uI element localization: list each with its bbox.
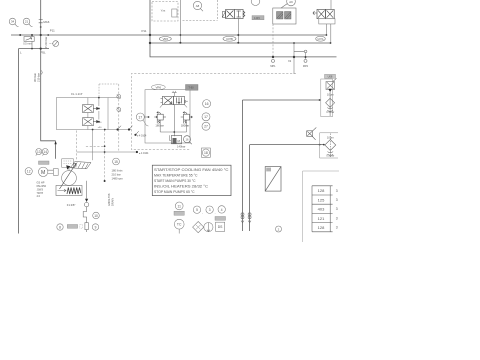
- svg-text:U08: U08: [328, 74, 333, 78]
- svg-text:180bar: 180bar: [181, 124, 189, 128]
- svg-text:▸ 4 0104: ▸ 4 0104: [139, 152, 149, 155]
- svg-text:210 bar: 210 bar: [37, 73, 41, 82]
- svg-text:34: 34: [11, 20, 15, 24]
- svg-text:140bar: 140bar: [177, 145, 185, 149]
- svg-text:4: 4: [221, 208, 223, 212]
- svg-text:12: 12: [27, 170, 31, 174]
- svg-text:TC: TC: [177, 223, 182, 227]
- svg-text:MA6: MA6: [43, 20, 49, 24]
- svg-text:121: 121: [318, 216, 325, 221]
- svg-text:10μm: 10μm: [327, 92, 335, 96]
- svg-text:DRAIN: DRAIN: [110, 198, 114, 206]
- svg-text:128: 128: [318, 188, 325, 193]
- svg-text:,: ,: [215, 210, 216, 214]
- svg-text:MAX TEMPERATURE 55 °C: MAX TEMPERATURE 55 °C: [154, 172, 198, 177]
- svg-text:128: 128: [318, 225, 325, 230]
- svg-text:27: 27: [204, 125, 208, 129]
- svg-text:P 210 bar: P 210 bar: [44, 37, 48, 48]
- svg-text:3: 3: [336, 207, 338, 211]
- svg-text:MP2: MP2: [303, 65, 309, 68]
- svg-text:18: 18: [204, 151, 208, 155]
- svg-text:17: 17: [138, 115, 142, 119]
- svg-text:10μm: 10μm: [327, 135, 335, 139]
- svg-text:3: 3: [336, 226, 338, 230]
- svg-text:180 l/min: 180 l/min: [112, 169, 123, 173]
- svg-text:8: 8: [59, 225, 61, 229]
- svg-text:A8: A8: [196, 4, 200, 8]
- svg-text:Yxx: Yxx: [161, 9, 166, 13]
- svg-text:X2: X2: [288, 59, 292, 63]
- svg-text:MP1: MP1: [270, 65, 276, 68]
- svg-text:VR6: VR6: [155, 85, 161, 89]
- svg-text:3: 3: [209, 208, 211, 212]
- svg-text:▸ 4 0104: ▸ 4 0104: [137, 135, 147, 138]
- svg-text:T-90: T-90: [188, 86, 194, 90]
- svg-text:F1.3/8": F1.3/8": [67, 203, 76, 207]
- svg-text:3: 3: [336, 198, 338, 202]
- svg-text:FL 1.1/4": FL 1.1/4": [71, 92, 83, 96]
- svg-text:3: 3: [336, 216, 338, 220]
- svg-text:403: 403: [318, 207, 325, 212]
- svg-text:125: 125: [318, 197, 325, 202]
- svg-text:13: 13: [37, 150, 41, 154]
- svg-text:M: M: [41, 170, 45, 176]
- svg-text:U07A: U07A: [318, 38, 324, 41]
- svg-text:0.5 bar: 0.5 bar: [326, 111, 334, 114]
- svg-text:5: 5: [196, 208, 198, 212]
- svg-text:1480 rpm: 1480 rpm: [112, 177, 124, 181]
- svg-text:DS: DS: [218, 225, 223, 229]
- svg-text:INS./OIL HEATERS 28/32 °C: INS./OIL HEATERS 28/32 °C: [154, 184, 208, 189]
- svg-text:U07B: U07B: [226, 37, 233, 41]
- svg-text:3: 3: [336, 189, 338, 193]
- svg-text:0.5 bar: 0.5 bar: [326, 155, 334, 158]
- svg-text:36 l/min: 36 l/min: [33, 72, 37, 82]
- svg-text:70/78: 70/78: [37, 191, 44, 195]
- svg-text:11: 11: [178, 204, 182, 208]
- svg-text:15: 15: [114, 160, 118, 164]
- svg-text:START/STOP COOLING FAN 45/40: START/STOP COOLING FAN 45/40 °C: [154, 167, 229, 172]
- svg-text:210 bar: 210 bar: [112, 173, 121, 177]
- svg-text:.DW3: .DW3: [37, 187, 44, 191]
- svg-text:6SL/250: 6SL/250: [37, 184, 47, 188]
- svg-text:1445: 1445: [254, 16, 260, 20]
- svg-text:10: 10: [94, 214, 98, 218]
- svg-text:GS HP: GS HP: [37, 181, 45, 185]
- svg-text:P5L: P5L: [41, 51, 47, 55]
- svg-text:16: 16: [205, 102, 209, 106]
- svg-text:A9: A9: [289, 0, 293, 4]
- svg-text:9: 9: [95, 225, 97, 229]
- svg-text:P11: P11: [50, 28, 55, 32]
- svg-text:17: 17: [204, 115, 208, 119]
- svg-text:P11: P11: [142, 29, 147, 33]
- svg-text:4.0: 4.0: [37, 194, 41, 198]
- svg-text:START MAIN PUMPS 30 °C: START MAIN PUMPS 30 °C: [154, 178, 196, 183]
- svg-text:14: 14: [43, 150, 47, 154]
- svg-text:0.5 mm: 0.5 mm: [23, 43, 31, 46]
- svg-text:VR6: VR6: [163, 37, 169, 41]
- svg-text:180bar: 180bar: [155, 124, 163, 128]
- svg-text:21: 21: [25, 20, 29, 24]
- svg-text:STOP MAIN PUMPS 65 °C: STOP MAIN PUMPS 65 °C: [154, 189, 195, 194]
